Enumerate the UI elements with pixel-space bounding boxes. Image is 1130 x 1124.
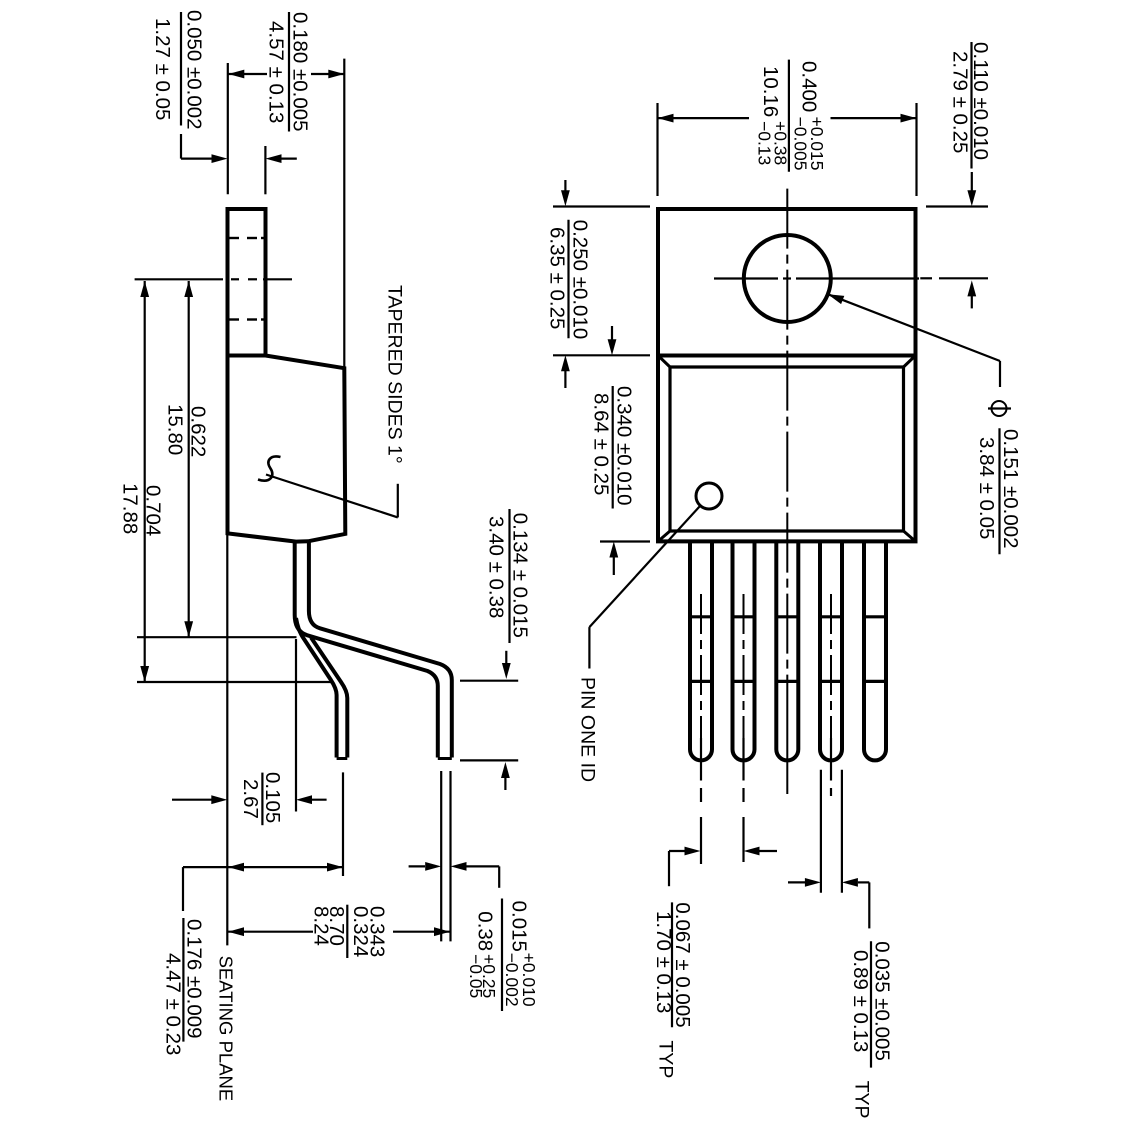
side view: hole centerline (dash-dot) <box>135 278 292 280</box>
label 0.015 +0.010/-0.002 / 0.38 +0.25/-0.05 <box>466 899 539 1012</box>
svg-text:0.015: 0.015 <box>508 901 531 952</box>
dimension 0.622/15.80 line with arrows <box>184 281 193 637</box>
dimension 0.134 arrows <box>501 651 511 790</box>
front view: mounting hole <box>744 235 831 322</box>
centerline: lead 1 (dash-dot) <box>700 594 702 864</box>
svg-text:8.24: 8.24 <box>310 906 333 946</box>
front view: pin one index circle <box>696 483 722 509</box>
label 0.622/15.80 <box>164 404 210 457</box>
svg-text:2.67: 2.67 <box>239 779 262 819</box>
extension lines: front-row lead edges <box>441 771 450 941</box>
label 0.250 +-0.010 / 6.35 +-0.25 <box>546 220 592 340</box>
leader: pin one id <box>589 506 700 669</box>
extension line: hole center (right) <box>920 277 988 279</box>
svg-text:0.050 ±0.002: 0.050 ±0.002 <box>183 10 206 130</box>
svg-text:0.324: 0.324 <box>349 906 372 957</box>
label 0.035 +-0.005 / 0.89 +-0.13 TYP <box>849 941 894 1118</box>
dimension 0.400 line with arrows <box>658 114 917 123</box>
svg-text:SEATING PLANE: SEATING PLANE <box>215 956 236 1102</box>
seating plane line <box>226 533 228 945</box>
label 0.180 +-0.005 / 4.57 +-0.13 <box>265 12 312 132</box>
diameter symbol <box>988 401 1011 416</box>
label 0.105/2.67 <box>239 772 284 825</box>
leader: tapered sides <box>266 475 398 518</box>
dimension 0.035 arrows (lead width) <box>788 878 869 928</box>
svg-text:TAPERED SIDES 1°: TAPERED SIDES 1° <box>384 285 406 464</box>
svg-text:−0.13: −0.13 <box>755 121 775 165</box>
svg-text:0.89 ± 0.13: 0.89 ± 0.13 <box>849 950 872 1052</box>
label TAPERED SIDES 1deg <box>384 285 406 464</box>
label 0.704/17.88 <box>118 483 164 536</box>
front view: body outer outline <box>658 356 916 542</box>
reference line: lead-end bend (right) <box>460 680 518 682</box>
label 0.151 +-0.002 / 3.84 +-0.05 <box>975 428 1022 554</box>
svg-text:−0.005: −0.005 <box>791 117 811 171</box>
front view: lead 5 step lines <box>864 617 886 682</box>
extension lines above tab <box>228 63 266 194</box>
taper squiggle <box>258 456 281 480</box>
reference line: first bend level <box>137 636 297 638</box>
svg-text:3.84 ± 0.05: 3.84 ± 0.05 <box>975 437 998 539</box>
label 0.340 +-0.010 / 8.64 +-0.25 <box>590 386 636 509</box>
svg-text:TYP: TYP <box>655 1040 677 1078</box>
svg-text:PIN ONE ID: PIN ONE ID <box>577 677 599 782</box>
dimension 0.110 down arrow <box>967 172 976 206</box>
svg-text:0.180 ±0.005: 0.180 ±0.005 <box>288 12 311 132</box>
svg-text:0.134 ± 0.015: 0.134 ± 0.015 <box>509 513 532 638</box>
front view: lead 1 outline <box>690 541 712 760</box>
front view: lead 4 step lines <box>820 617 842 682</box>
front view: lead 5 outline <box>864 541 886 760</box>
svg-text:17.88: 17.88 <box>118 483 141 534</box>
dimension 0.343 line (seating plane to front row) <box>228 927 450 936</box>
front view: lead 2 step lines <box>733 617 755 682</box>
svg-text:1.27 ± 0.05: 1.27 ± 0.05 <box>151 18 174 120</box>
label PIN ONE ID <box>577 677 599 782</box>
centerline: lead 4 (dash-dot) <box>830 594 832 796</box>
svg-text:0.176 ±0.009: 0.176 ±0.009 <box>183 919 206 1039</box>
svg-text:6.35 ± 0.25: 6.35 ± 0.25 <box>546 227 569 329</box>
label 0.134 +-0.015 / 3.40 +-0.38 <box>485 509 532 643</box>
svg-text:4.47 ± 0.23: 4.47 ± 0.23 <box>162 953 185 1055</box>
svg-text:0.340 ±0.010: 0.340 ±0.010 <box>613 386 636 506</box>
label 0.400 +0.015/-0.005 / 10.16 +0.38/-0.13 <box>755 60 828 172</box>
dimension 0.067 arrows (lead pitch) <box>669 847 777 887</box>
dimension 0.400 extension lines <box>658 103 917 196</box>
front view: lead 2 outline <box>733 541 755 760</box>
extension line: back-row lead center <box>342 772 344 876</box>
svg-text:0.151 ±0.002: 0.151 ±0.002 <box>999 429 1022 549</box>
extension line: tab top edge (right) <box>926 205 988 207</box>
svg-text:15.80: 15.80 <box>164 404 187 455</box>
svg-text:0.105: 0.105 <box>261 772 284 823</box>
label 0.050 +-0.002 / 1.27 +-0.05 <box>151 10 206 130</box>
extension line: tab bottom edge (left) <box>553 354 650 356</box>
label 0.067 +-0.005 / 1.70 +-0.13 TYP <box>652 902 694 1078</box>
label 0.110 +-0.010 / 2.79 +-0.25 <box>949 42 993 169</box>
dimension 0.176 line (seating plane to back row) <box>183 863 343 911</box>
reference line: lead tip level (right) <box>460 759 518 761</box>
side view: mounting tab outline <box>228 209 266 356</box>
svg-text:2.79 ± 0.25: 2.79 ± 0.25 <box>949 51 972 153</box>
svg-text:8.64 ± 0.25: 8.64 ± 0.25 <box>590 393 613 495</box>
side view: back-row formed lead <box>296 618 347 759</box>
front view: lead 4 outline <box>820 541 842 760</box>
dimension 0.340 arrows <box>608 326 619 575</box>
svg-text:1.70 ± 0.13: 1.70 ± 0.13 <box>652 911 675 1013</box>
side view: front-row formed lead <box>295 542 452 759</box>
svg-text:TYP: TYP <box>851 1081 873 1119</box>
centerline: hole horizontal (dash-dot) <box>714 277 919 279</box>
front view: body inner outline <box>670 367 904 531</box>
svg-text:10.16: 10.16 <box>759 66 782 117</box>
svg-text:0.622: 0.622 <box>186 406 209 457</box>
label 0.176 +-0.009 / 4.47 +-0.23 <box>162 918 206 1055</box>
dimension 0.050 leader and arrows <box>181 134 297 163</box>
front view: tab outline <box>658 209 916 356</box>
side view: body outline (tapered) <box>228 356 346 542</box>
extension line: body front face <box>343 59 345 368</box>
front view: chamfer corners <box>658 356 916 542</box>
leader: hole diameter <box>828 294 1000 387</box>
svg-text:0.400: 0.400 <box>798 61 821 112</box>
svg-text:0.38: 0.38 <box>474 911 497 951</box>
svg-text:0.035 ±0.005: 0.035 ±0.005 <box>871 941 894 1061</box>
front view: lead 3 outline <box>776 541 798 760</box>
extension lines: lead 4 edges <box>821 770 842 893</box>
front view: lead 3 step lines <box>776 617 798 682</box>
reference line: second bend level <box>137 681 331 683</box>
dimension 0.105 arrows <box>172 795 327 804</box>
dimension 0.015 arrows (lead thickness) <box>409 862 500 888</box>
label 0.343 0.324 / 8.70 8.24 <box>310 905 389 958</box>
side view: hidden hole edge (upper dashed line) <box>228 237 266 239</box>
svg-text:−0.002: −0.002 <box>502 953 522 1007</box>
dimension 0.110 up arrow <box>967 280 976 308</box>
svg-text:−0.05: −0.05 <box>466 954 486 998</box>
dimension 0.250 arrows <box>561 180 570 388</box>
extension line: lead exit (0.105 ref) <box>295 639 297 812</box>
centerline: lead 2 (dash-dot) <box>743 594 745 862</box>
extension line: body bottom edge (left) <box>600 540 650 542</box>
centerline: package vertical (dash-dot) <box>786 189 788 794</box>
extension line: tab top edge (left) <box>553 205 650 207</box>
dimension 0.180 line with arrows <box>228 70 344 79</box>
svg-text:0.250 ±0.010: 0.250 ±0.010 <box>569 220 592 340</box>
front view: lead 1 step lines <box>690 617 712 682</box>
svg-text:4.57 ± 0.13: 4.57 ± 0.13 <box>265 21 288 123</box>
svg-text:0.704: 0.704 <box>142 485 165 536</box>
svg-text:3.40 ± 0.38: 3.40 ± 0.38 <box>485 516 508 618</box>
side view: hidden hole edge (lower dashed line) <box>228 318 266 320</box>
label SEATING PLANE <box>215 956 236 1102</box>
dimension 0.704/17.88 line with arrows <box>140 281 149 682</box>
